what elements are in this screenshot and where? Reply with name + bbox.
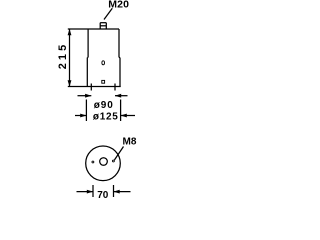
body top edge with 215 top extension line bbox=[68, 28, 119, 30]
70 extension line left bbox=[92, 185, 94, 197]
svg-text:215: 215 bbox=[57, 42, 69, 70]
body left side step bbox=[86, 57, 89, 59]
70 extension line right bbox=[113, 185, 115, 197]
M8 leader line bbox=[114, 147, 123, 161]
70 dimension line left bbox=[77, 191, 94, 193]
215 dimension line bbox=[69, 29, 71, 87]
dia90 extension tick left bbox=[90, 84, 92, 91]
center square mark bbox=[102, 80, 105, 83]
dia125 extension line right bbox=[120, 100, 122, 122]
center ring mark bbox=[102, 61, 105, 65]
dia90 extension tick right bbox=[114, 84, 116, 91]
dia90 arrow right bbox=[115, 94, 121, 98]
body left side upper bbox=[87, 29, 89, 58]
dia125 arrow right bbox=[120, 114, 126, 118]
70 arrow left bbox=[87, 190, 93, 194]
70 dimension line right bbox=[114, 191, 131, 193]
svg-text:70: 70 bbox=[97, 190, 109, 200]
70 arrow right bbox=[113, 190, 119, 194]
M20 leader line bbox=[104, 8, 112, 19]
svg-text:M8: M8 bbox=[123, 137, 137, 148]
dia90 dimension line left bbox=[78, 95, 92, 97]
stud M20 right side bbox=[105, 23, 107, 29]
dia90 arrow left bbox=[85, 94, 91, 98]
dia125 extension line left bbox=[85, 100, 87, 122]
dia90 dimension line right bbox=[115, 95, 128, 97]
body right side step bbox=[119, 57, 120, 59]
215 arrow up bbox=[68, 29, 72, 35]
dia125 dimension line left bbox=[75, 115, 86, 117]
svg-text:M20: M20 bbox=[108, 0, 129, 11]
dia125 dimension line right bbox=[121, 115, 135, 117]
dia125 arrow left bbox=[80, 114, 86, 118]
stud thread line bbox=[100, 25, 106, 27]
bottom view right M8 hole bbox=[112, 160, 114, 162]
215 arrow down bbox=[68, 80, 72, 86]
svg-text:ø125: ø125 bbox=[93, 111, 119, 122]
bottom view left M8 hole bbox=[92, 161, 94, 163]
bottom view outer circle bbox=[86, 146, 121, 181]
stud M20 left side bbox=[99, 23, 101, 29]
body left side lower bbox=[86, 58, 88, 87]
body bottom edge with 215 bottom extension line bbox=[68, 86, 121, 88]
svg-text:ø90: ø90 bbox=[94, 100, 114, 111]
bottom view center hole bbox=[100, 158, 108, 166]
body right side upper bbox=[118, 29, 120, 58]
body right side lower bbox=[119, 58, 121, 87]
stud M20 top edge bbox=[100, 22, 106, 24]
